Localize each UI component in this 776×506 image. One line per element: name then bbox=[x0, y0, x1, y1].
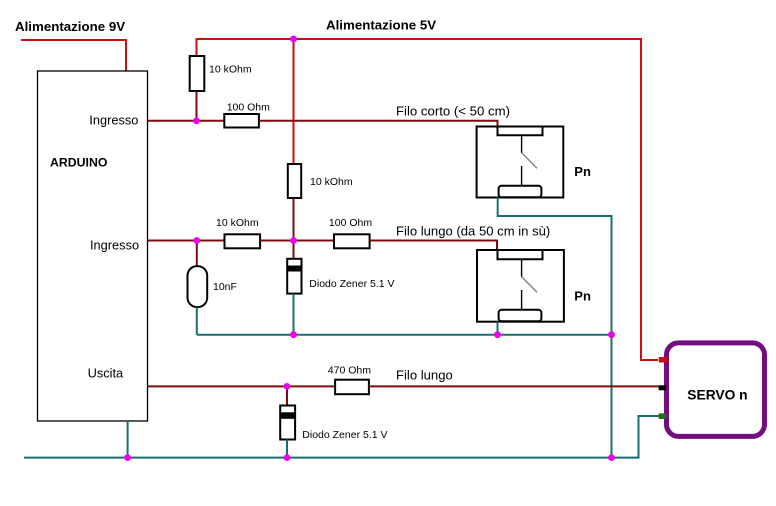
svg-text:100 Ohm: 100 Ohm bbox=[227, 101, 270, 113]
pin servo +V (red square) bbox=[659, 357, 668, 363]
svg-text:Pn: Pn bbox=[574, 164, 591, 179]
wire R3 bottom through row2 to D1 (dark red) bbox=[293, 198, 295, 259]
resistor R5 100 Ohm (row2) bbox=[334, 234, 370, 248]
wire row1 Ingresso1 (dark red) bbox=[148, 120, 225, 122]
wire ground rail bottom (teal) bbox=[24, 416, 659, 458]
resistor R2 100 Ohm (row1) bbox=[224, 114, 259, 128]
wire Uscita row right to servo (dark red) bbox=[369, 385, 659, 387]
wire S2 bottom to teal rail (teal) bbox=[497, 322, 499, 335]
node junction teal rail / S2 bbox=[494, 331, 501, 338]
wire row2 mid (dark red) bbox=[260, 240, 334, 242]
svg-text:Alimentazione 9V: Alimentazione 9V bbox=[15, 19, 125, 34]
node junction row2 / C1 bbox=[193, 237, 200, 244]
svg-text:ARDUINO: ARDUINO bbox=[50, 156, 108, 170]
svg-text:SERVO n: SERVO n bbox=[687, 388, 747, 403]
svg-text:Uscita: Uscita bbox=[88, 366, 124, 381]
wire 5V supply rail (bright red) bbox=[197, 39, 659, 360]
op-amp U1 ARDUINO box bbox=[38, 71, 148, 421]
svg-text:Diodo Zener 5.1 V: Diodo Zener 5.1 V bbox=[302, 429, 387, 441]
node junction teal rail / S1 drop bbox=[608, 331, 615, 338]
diode zener D2 bbox=[280, 406, 295, 440]
node junction Uscita / D2 bbox=[284, 383, 291, 390]
resistor R6 470 Ohm bbox=[335, 380, 369, 395]
svg-text:Pn: Pn bbox=[574, 288, 591, 303]
wire 5V drop to R3 (bright red) bbox=[293, 39, 295, 164]
wire row2 junction to C1 (dark red) bbox=[196, 241, 198, 267]
svg-text:Filo lungo: Filo lungo bbox=[396, 368, 453, 383]
svg-text:Filo corto (< 50 cm): Filo corto (< 50 cm) bbox=[396, 103, 510, 118]
wire teal mid rail bbox=[197, 334, 612, 336]
wire R1 bottom to row1 (dark red) bbox=[196, 91, 198, 121]
wire D1 bottom to teal rail (teal) bbox=[293, 294, 295, 335]
node junction teal rail / D1 bbox=[290, 331, 297, 338]
svg-text:Alimentazione 5V: Alimentazione 5V bbox=[326, 18, 436, 33]
node junction 5V rail / R3 bbox=[290, 36, 297, 43]
wire Uscita row (dark red) bbox=[148, 385, 336, 387]
pin servo signal (black square) bbox=[659, 385, 667, 390]
node junction ground rail / teal vertical bbox=[608, 454, 615, 461]
wire row1 to switch S1 (dark red) bbox=[259, 121, 498, 127]
switch S2 Pn (pushbutton) bbox=[477, 250, 564, 322]
svg-text:Diodo Zener 5.1 V: Diodo Zener 5.1 V bbox=[309, 278, 394, 290]
wire C1 bottom to teal rail (teal) bbox=[196, 307, 198, 335]
wire row2 Ingresso2 (dark red) bbox=[148, 240, 226, 242]
svg-text:10 kOhm: 10 kOhm bbox=[216, 217, 259, 229]
svg-text:Ingresso: Ingresso bbox=[90, 237, 139, 252]
diode zener D1 bbox=[287, 259, 301, 294]
servo M1 SERVO n box bbox=[667, 343, 765, 437]
node junction row1 / R1 bbox=[193, 117, 200, 124]
svg-text:100 Ohm: 100 Ohm bbox=[329, 217, 372, 229]
resistor R1 10 kOhm (vertical, top) bbox=[190, 56, 205, 91]
node junction row2 / R3 / D1 bbox=[290, 237, 297, 244]
svg-text:10 kOhm: 10 kOhm bbox=[310, 176, 353, 188]
wire D2 bottom to ground rail (teal) bbox=[286, 440, 288, 458]
svg-text:Filo lungo (da 50 cm in sù): Filo lungo (da 50 cm in sù) bbox=[396, 223, 550, 238]
wire row2 to switch S2 (dark red) bbox=[370, 241, 497, 251]
pin servo ground (green square) bbox=[659, 413, 668, 419]
wire ARDUINO ground drop (teal) bbox=[127, 421, 129, 458]
capacitor C1 10nF bbox=[188, 266, 208, 307]
wire 9V supply (bright red) bbox=[21, 40, 126, 71]
svg-text:10 kOhm: 10 kOhm bbox=[209, 64, 252, 76]
wire Uscita junction to D2 (dark red) bbox=[286, 386, 288, 406]
svg-text:470 Ohm: 470 Ohm bbox=[328, 365, 371, 377]
wire S1 bottom to teal vertical (teal) bbox=[498, 198, 612, 458]
svg-text:Ingresso: Ingresso bbox=[89, 113, 138, 128]
resistor R4 10 kOhm (row2) bbox=[225, 234, 261, 248]
node junction ground rail / D2 bbox=[284, 454, 291, 461]
resistor R3 10 kOhm (vertical, middle) bbox=[288, 164, 301, 198]
switch S1 Pn (pushbutton) bbox=[477, 127, 564, 198]
node junction ground rail / ARDUINO bbox=[124, 454, 131, 461]
svg-text:10nF: 10nF bbox=[213, 281, 237, 293]
